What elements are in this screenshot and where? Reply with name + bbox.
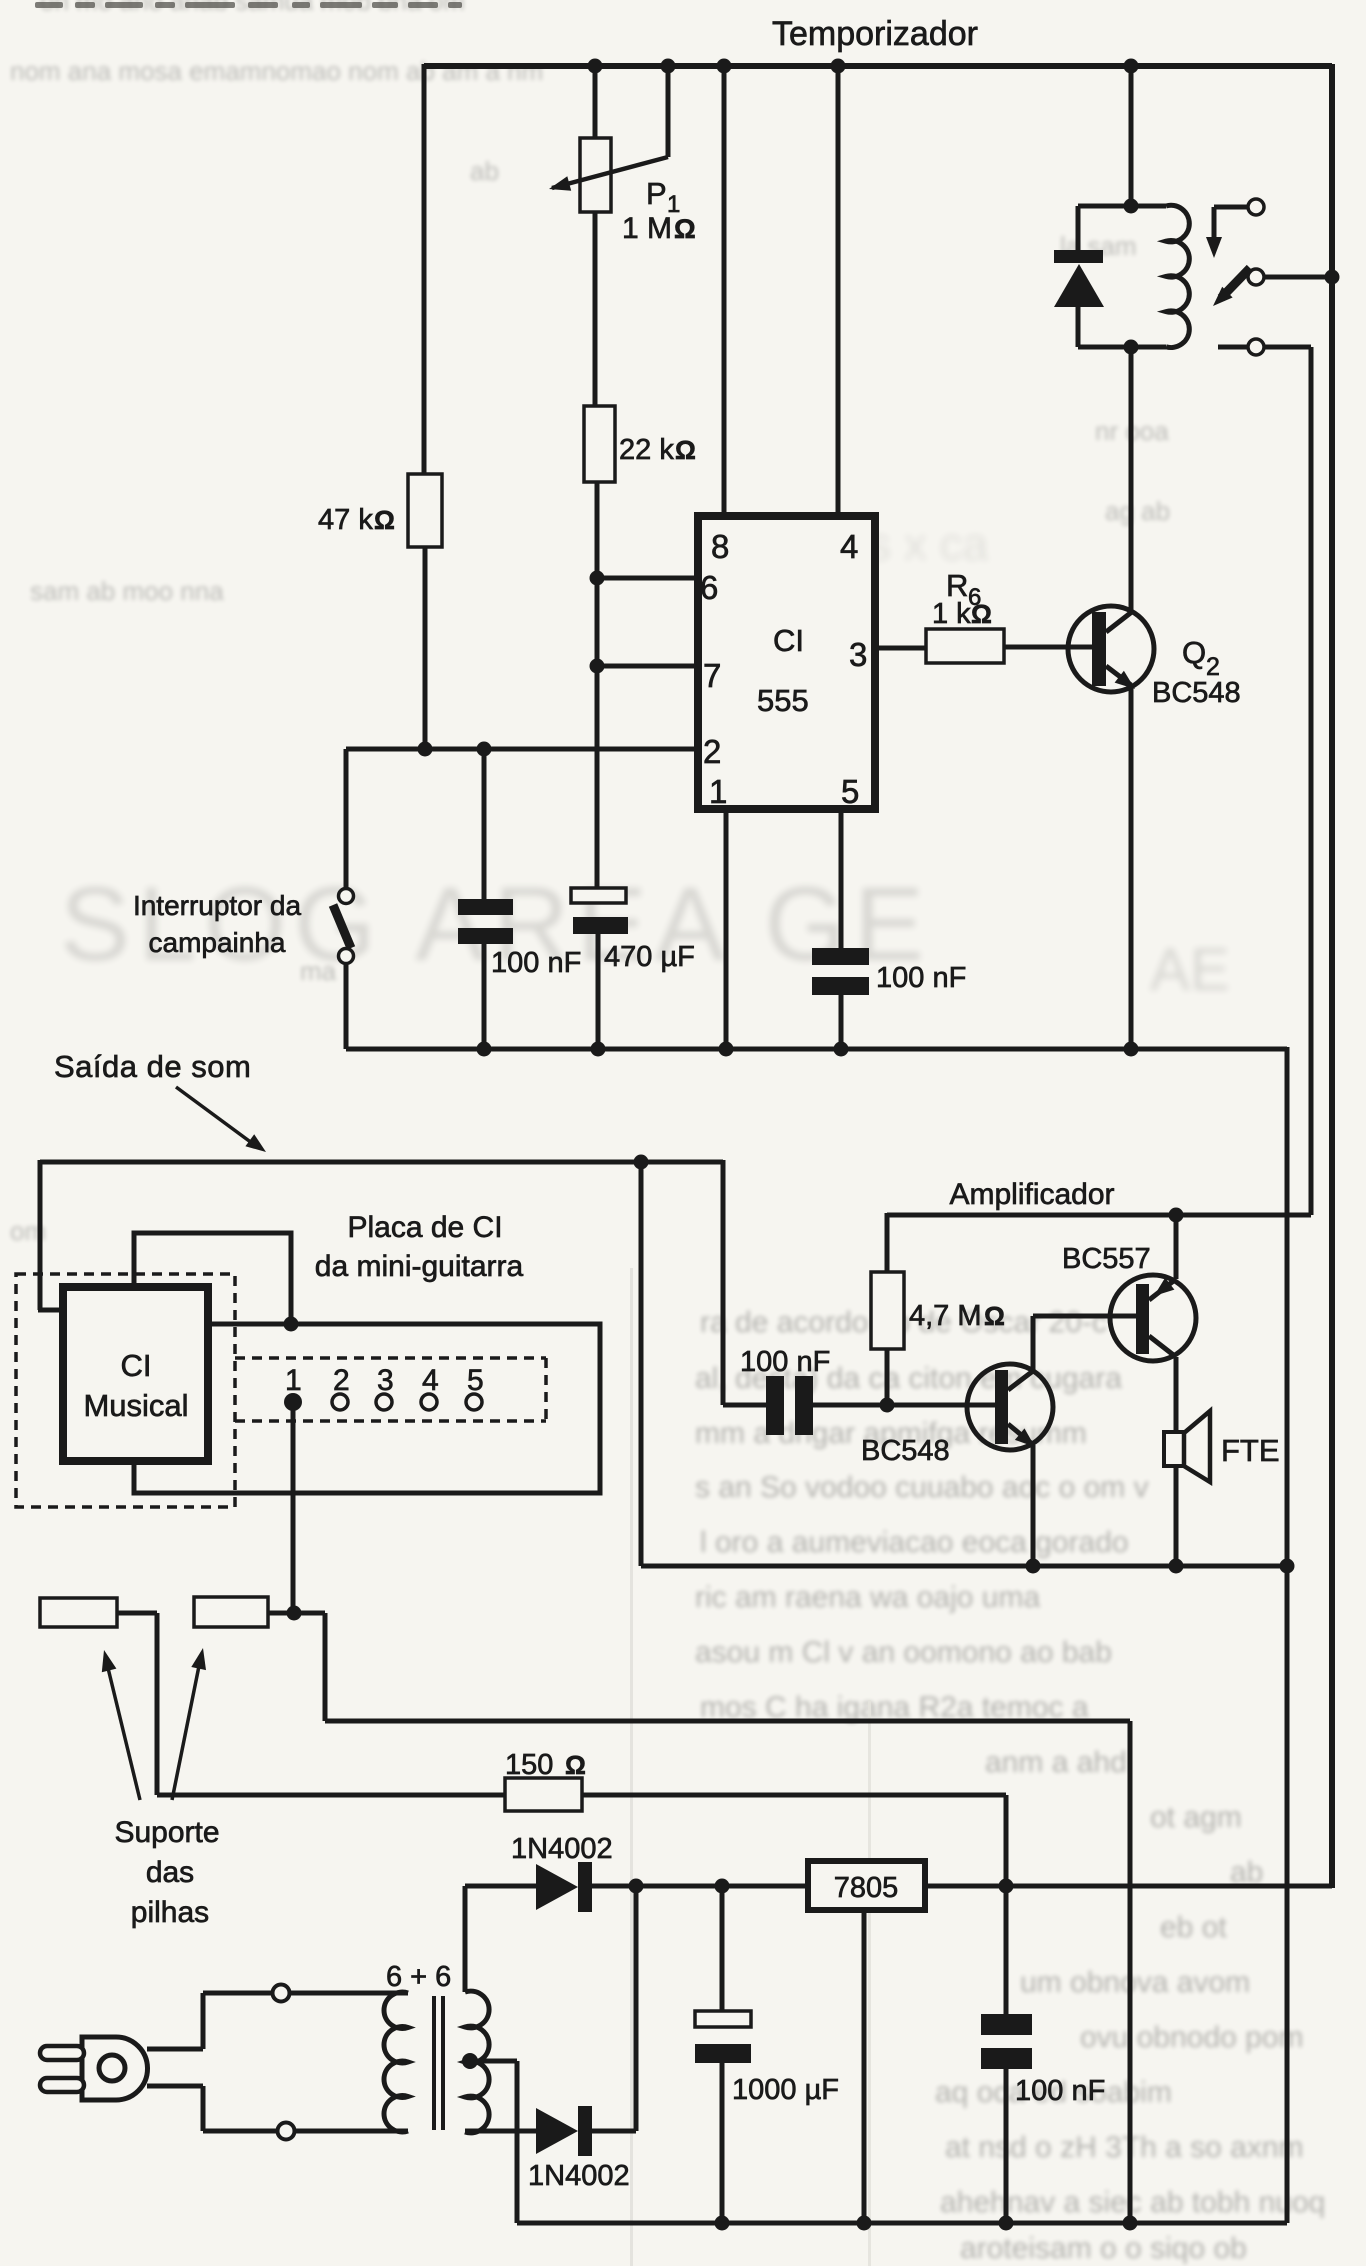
wire: pin 3 output to R6 <box>875 646 926 651</box>
svg-text:Q: Q <box>1182 635 1206 670</box>
wire: sound output line <box>40 1160 723 1165</box>
svg-text:Ω: Ω <box>374 505 395 535</box>
wire: BC557 collector down to speaker <box>1174 1357 1179 1434</box>
wire: 150 ohm feed line <box>157 1793 505 1798</box>
junction: 150 ohm branch on +5V output <box>999 1879 1014 1894</box>
svg-text:Ω: Ω <box>984 1301 1005 1331</box>
svg-text:aroteisam o o siqo ob: aroteisam o o siqo ob <box>960 2232 1247 2265</box>
svg-text:100 nF: 100 nF <box>1015 2075 1105 2107</box>
svg-text:Interruptor da: Interruptor da <box>133 890 302 921</box>
wire: secondary bottom to D2 <box>465 2129 536 2134</box>
junction: relay common on right +V line <box>1325 270 1340 285</box>
relay contact: bottom terminal circle <box>1248 339 1264 355</box>
node: P1 top junction on +V rail <box>588 59 603 74</box>
svg-text:5: 5 <box>841 773 859 810</box>
wire: sound-line ground branch down <box>639 1160 644 1566</box>
wire: PCB trace loop <box>134 1324 600 1493</box>
svg-text:4: 4 <box>840 528 858 565</box>
svg-text:6 + 6: 6 + 6 <box>386 1961 451 1993</box>
wire: 555 pin 5 lead down through 100nF <box>839 809 844 948</box>
wire: top +V supply rail <box>424 63 1332 69</box>
svg-text:470 µF: 470 µF <box>604 941 695 973</box>
wire: right pad to ground return <box>268 1611 325 1616</box>
svg-text:at nsd o zH 3Th a so axnm: at nsd o zH 3Th a so axnm <box>945 2131 1304 2164</box>
junction: Q2 emitter to ground <box>1124 1042 1139 1057</box>
svg-text:BC548: BC548 <box>861 1435 950 1467</box>
node: 555 pin 4 junction on +V rail <box>831 59 846 74</box>
capacitor 100 nF (pin5) bottom plate <box>812 977 869 995</box>
wire: secondary top to D1 <box>463 1886 468 1992</box>
svg-text:1000 µF: 1000 µF <box>732 2074 839 2106</box>
wire: sound line right drop to coupling cap <box>721 1160 726 1405</box>
switch: interruptor da campainha <box>344 749 349 889</box>
node: 555 pin 8 junction on +V rail <box>717 59 732 74</box>
relay coil K1 <box>1078 204 1166 209</box>
svg-text:BC548: BC548 <box>1152 677 1241 709</box>
svg-text:47 k: 47 k <box>318 504 373 536</box>
wire: ground link timer to amplifier to supply <box>1285 1047 1290 2223</box>
diode D2 1N4002 (bottom) triangle <box>536 2108 578 2154</box>
junction: pin 1 to ground <box>719 1042 734 1057</box>
svg-text:AE: AE <box>1150 936 1230 1003</box>
svg-text:BC557: BC557 <box>1062 1243 1151 1275</box>
svg-text:l oro a aumeviacao eoca go: l oro a aumeviacao eoca gorado <box>700 1526 1129 1559</box>
svg-text:ric am raena wa oajo uma: ric am raena wa oajo uma <box>695 1581 1040 1614</box>
plug prong bottom <box>40 2078 84 2092</box>
node: pad 1 (filled) <box>284 1393 302 1411</box>
svg-text:P: P <box>646 176 667 211</box>
transistor BC548 (amplifier, NPN) <box>967 1364 1053 1450</box>
wire: plug to primary bottom <box>147 2084 203 2089</box>
arrowhead: saída de som pointer <box>176 1087 256 1146</box>
transformer T1 secondary winding 6+6 <box>465 1991 489 2133</box>
junction: pin 6 tap <box>590 571 605 586</box>
junction: 100nF ground <box>999 2216 1014 2231</box>
transformer T1 primary winding <box>384 1992 408 2132</box>
wire: pin 7 stub <box>597 664 698 669</box>
svg-text:da mini-guitarra: da mini-guitarra <box>315 1250 524 1283</box>
svg-text:100 nF: 100 nF <box>740 1346 830 1378</box>
wire: right +V line from top rail down to 7805 output <box>1329 64 1335 1888</box>
svg-text:1: 1 <box>285 1364 302 1397</box>
wire: P1 bottom to 22k top <box>593 212 598 407</box>
capacitor 100 nF (pin5) top plate <box>812 948 869 965</box>
svg-text:s an So vodoo cuuabo aoc o: s an So vodoo cuuabo aoc o om v <box>695 1471 1149 1504</box>
wire: rectifier node down to D2 <box>634 1886 639 2131</box>
arrowhead: relay actuation arrow <box>1206 237 1222 258</box>
wire: BC548 collector up and to BC557 base <box>1031 1316 1036 1371</box>
junction: base bias node <box>880 1398 895 1413</box>
IC U1 555 timer box <box>698 516 875 809</box>
svg-text:100 nF: 100 nF <box>491 947 581 979</box>
transistor BC557 (PNP) <box>1110 1275 1196 1361</box>
dashed outline: pad strip extension <box>235 1356 546 1360</box>
junction: 1000uF on input line <box>715 1879 730 1894</box>
svg-text:4: 4 <box>422 1364 439 1397</box>
dashed outline: guitar PCB module <box>16 1274 235 1507</box>
svg-text:Ω: Ω <box>565 1750 586 1780</box>
svg-text:um obnova avom: um obnova avom <box>1020 1966 1250 1999</box>
wire: 4.7M bottom lead <box>885 1349 890 1405</box>
wire: coupling cap leads <box>723 1403 766 1408</box>
svg-text:Suporte: Suporte <box>114 1816 219 1849</box>
capacitor 470 µF top plate (polarized, outline) <box>571 888 626 903</box>
transistor Q2 BC548 (NPN) <box>1068 606 1154 692</box>
capacitor 100 nF output bottom plate <box>981 2048 1032 2069</box>
svg-text:150: 150 <box>505 1749 553 1781</box>
wire: D2 cathode stub <box>592 2129 636 2134</box>
svg-text:1N4002: 1N4002 <box>511 1833 613 1865</box>
wire: CI Musical top link <box>134 1233 291 1324</box>
junction: 1000uF ground <box>715 2216 730 2231</box>
svg-text:7805: 7805 <box>834 1872 899 1904</box>
diode D1 1N4002 (top) cathode bar <box>578 1862 592 1912</box>
wire: Q2 collector up to relay coil <box>1129 347 1134 611</box>
junction: 7805 ground <box>857 2216 872 2231</box>
arrowhead: pointer to right pad <box>172 1666 199 1800</box>
svg-text:ovu obnodo pom: ovu obnodo pom <box>1080 2021 1304 2054</box>
diode D flyback: cathode bar <box>1076 206 1081 252</box>
svg-text:7: 7 <box>703 657 721 694</box>
svg-text:2: 2 <box>703 733 721 770</box>
svg-text:1 k: 1 k <box>932 598 971 630</box>
svg-text:1 M: 1 M <box>622 212 672 245</box>
resistor R6 1 kΩ <box>926 629 1004 663</box>
plug prong top <box>40 2046 84 2060</box>
wire: left pad to 150 ohm line <box>117 1611 157 1616</box>
wire: P1 top lead <box>593 64 598 140</box>
junction: 100nF tap on pin2 line <box>477 742 492 757</box>
capacitor 100 nF coupling right plate <box>795 1376 813 1435</box>
wire: 4.7M top lead <box>885 1213 890 1272</box>
wire: left +V branch down to 47k <box>422 64 427 476</box>
svg-text:eb ot: eb ot <box>1160 1911 1227 1944</box>
wire: amplifier +V rail <box>887 1213 1311 1218</box>
potentiometer P1 1 MΩ body <box>580 138 611 212</box>
svg-text:ab: ab <box>470 156 499 186</box>
junction: pin5 100nF to ground <box>834 1042 849 1057</box>
wire: bottom contact left stub <box>1218 345 1248 350</box>
capacitor 100 nF (trigger) bottom plate <box>458 928 513 944</box>
svg-text:4,7 M: 4,7 M <box>909 1300 982 1332</box>
svg-text:sam ab moo nna: sam ab moo nna <box>30 576 224 606</box>
plug: AC mains plug body <box>82 2037 148 2100</box>
junction: amp ground to main ground link <box>1280 1559 1295 1574</box>
svg-text:Ω: Ω <box>971 599 992 629</box>
pad 3 circle <box>376 1394 392 1410</box>
pad 5 circle <box>466 1394 482 1410</box>
svg-text:FTE: FTE <box>1221 1433 1280 1468</box>
wire: BC548 emitter to amp ground rail <box>1031 1445 1036 1566</box>
svg-text:ot agm: ot agm <box>1150 1801 1242 1834</box>
svg-text:asou m Cl v an oomono ao bab: asou m Cl v an oomono ao bab <box>695 1636 1112 1669</box>
svg-text:6: 6 <box>700 569 718 606</box>
svg-text:nom ana mosa emamnomao nom: nom ana mosa emamnomao nom ab am a nm <box>10 56 543 86</box>
wire: center tap to supply ground rail <box>470 2059 517 2064</box>
wire: 150 ohm to +5V node <box>582 1793 1006 1798</box>
capacitor 470 µF bottom plate <box>573 917 628 934</box>
node: relay coil junction on +V rail <box>1124 59 1139 74</box>
speaker FTE <box>1164 1432 1184 1466</box>
svg-text:2: 2 <box>333 1364 350 1397</box>
wire: D1 cathode to 7805 input <box>592 1884 808 1889</box>
svg-text:100 nF: 100 nF <box>876 962 966 994</box>
junction: BC548 emitter on amp ground <box>1026 1559 1041 1574</box>
wire: R6 to Q2 base <box>1004 645 1094 650</box>
svg-text:ahehnav a siec ab tobh nu: ahehnav a siec ab tobh nuoq <box>940 2186 1325 2219</box>
resistor 4,7 MΩ <box>871 1272 904 1349</box>
wire: relay common to right +V line <box>1264 275 1332 280</box>
capacitor 100 nF coupling left plate <box>766 1376 784 1435</box>
wire: timer ground rail <box>346 1047 1287 1052</box>
wire: 470uF bottom lead <box>596 934 601 1049</box>
resistor 22 kΩ <box>584 406 615 482</box>
svg-text:ag ab: ag ab <box>1105 496 1170 526</box>
relay contact: common terminal circle <box>1248 269 1264 285</box>
svg-text:Ω: Ω <box>675 435 696 465</box>
resistor 150 Ω <box>505 1778 582 1811</box>
svg-text:Saída de som: Saída de som <box>54 1049 251 1084</box>
arrowhead: pointer to left pad <box>108 1668 140 1800</box>
wire: Q2 emitter down to ground rail <box>1129 687 1134 1049</box>
battery holder pad (right, -) <box>194 1597 268 1627</box>
svg-text:1N4002: 1N4002 <box>528 2160 630 2192</box>
wire: pin 2 line from switch to 555 <box>346 747 698 752</box>
capacitor 1000 µF bottom plate <box>695 2044 751 2063</box>
svg-text:Placa de CI: Placa de CI <box>347 1211 502 1244</box>
capacitor 100 nF (trigger) top plate <box>458 899 513 915</box>
wire: amp ground rail <box>641 1564 1287 1569</box>
regulator 7805 box <box>808 1861 925 1910</box>
wire: 555 pin 4 lead <box>836 64 841 515</box>
battery holder pad (left, +) <box>40 1598 117 1627</box>
svg-text:555: 555 <box>757 683 809 718</box>
svg-text:Temporizador: Temporizador <box>772 15 978 53</box>
svg-text:CI: CI <box>121 1348 152 1383</box>
junction: speaker on amp ground <box>1169 1559 1184 1574</box>
wire: 555 pin 1 lead to ground <box>724 809 729 1049</box>
transformer T1 core <box>432 1996 436 2130</box>
junction: pin 7 tap <box>590 659 605 674</box>
wire: BC557 emitter to +V rail <box>1174 1215 1179 1279</box>
svg-text:anm a ahd: anm a ahd <box>985 1746 1127 1779</box>
svg-text:Amplificador: Amplificador <box>949 1178 1114 1211</box>
junction: relay coil top <box>1124 199 1139 214</box>
wire: sound line left drop to CI Musical <box>38 1160 43 1310</box>
svg-text:3: 3 <box>377 1364 394 1397</box>
capacitor 100 nF output top plate <box>981 2014 1032 2035</box>
pad 2 circle <box>332 1394 348 1410</box>
node: P1 wiper junction on +V rail <box>661 59 676 74</box>
wire: pad 1 down to battery minus line <box>291 1402 296 1613</box>
junction: battery minus ground <box>1123 2216 1138 2231</box>
wire: P1 wiper connection from +V rail <box>666 64 671 157</box>
junction: top link to PCB loop <box>284 1317 299 1332</box>
junction: 47k to pin 2 line <box>418 742 433 757</box>
svg-text:das: das <box>146 1856 194 1889</box>
junction: 100nF to ground <box>477 1042 492 1057</box>
wire: relay switched output down to amplifier +V rail <box>1264 345 1311 350</box>
IC CI Musical box <box>63 1287 208 1461</box>
wire: 7805 ground pin <box>862 1910 867 2223</box>
connector circle: primary bottom <box>278 2123 295 2140</box>
svg-text:8: 8 <box>711 528 729 565</box>
wire: plug to primary top <box>147 2047 203 2052</box>
svg-text:5: 5 <box>467 1364 484 1397</box>
junction: 470uF to ground <box>591 1042 606 1057</box>
node: transformer center tap <box>462 2053 478 2069</box>
relay moving lever <box>1221 268 1250 298</box>
svg-text:pilhas: pilhas <box>131 1896 209 1929</box>
wire: relay coil feed from +V rail <box>1129 64 1134 206</box>
wire: pin 6 stub <box>597 576 698 581</box>
capacitor 1000 µF top plate (outline) <box>720 1886 725 2011</box>
wire: 47k bottom to pin2 line <box>423 547 428 749</box>
svg-text:Ω: Ω <box>674 214 696 244</box>
pad 4 circle <box>421 1394 437 1410</box>
junction: rectifier output node <box>629 1879 644 1894</box>
diode D2 1N4002 (bottom) cathode bar <box>578 2106 592 2156</box>
junction: amp ground branch on sound line <box>634 1155 649 1170</box>
resistor 47 kΩ <box>408 474 442 547</box>
wire: 22k bottom down to 470uF (through pins 6,7 taps) <box>595 482 600 889</box>
diode D1 1N4002 (top) triangle <box>536 1864 578 1910</box>
wire: top contact bend <box>1214 205 1248 210</box>
wire: 100nF leads <box>482 749 487 899</box>
wire: 555 pin 8 lead <box>722 64 727 515</box>
junction: relay coil bottom <box>1124 340 1139 355</box>
svg-text:1: 1 <box>709 773 727 810</box>
junction: pad1 wire joins battery minus <box>287 1606 302 1621</box>
svg-text:Musical: Musical <box>83 1388 188 1423</box>
relay contact: top terminal circle <box>1248 199 1264 215</box>
svg-text:22 k: 22 k <box>619 434 674 466</box>
junction: BC557 emitter on +V rail <box>1169 1208 1184 1223</box>
svg-text:3: 3 <box>849 636 867 673</box>
arrowhead: P1 wiper arrow <box>549 176 571 191</box>
svg-text:CI: CI <box>773 623 804 658</box>
wire: supply ground rail <box>517 2221 1287 2226</box>
svg-text:campainha: campainha <box>149 927 286 958</box>
diode D flyback: triangle <box>1054 264 1104 307</box>
connector circle: primary top <box>273 1985 290 2002</box>
wire: 7805 output line to right +V <box>925 1884 1332 1889</box>
wire: speaker to amp ground rail <box>1174 1466 1179 1566</box>
